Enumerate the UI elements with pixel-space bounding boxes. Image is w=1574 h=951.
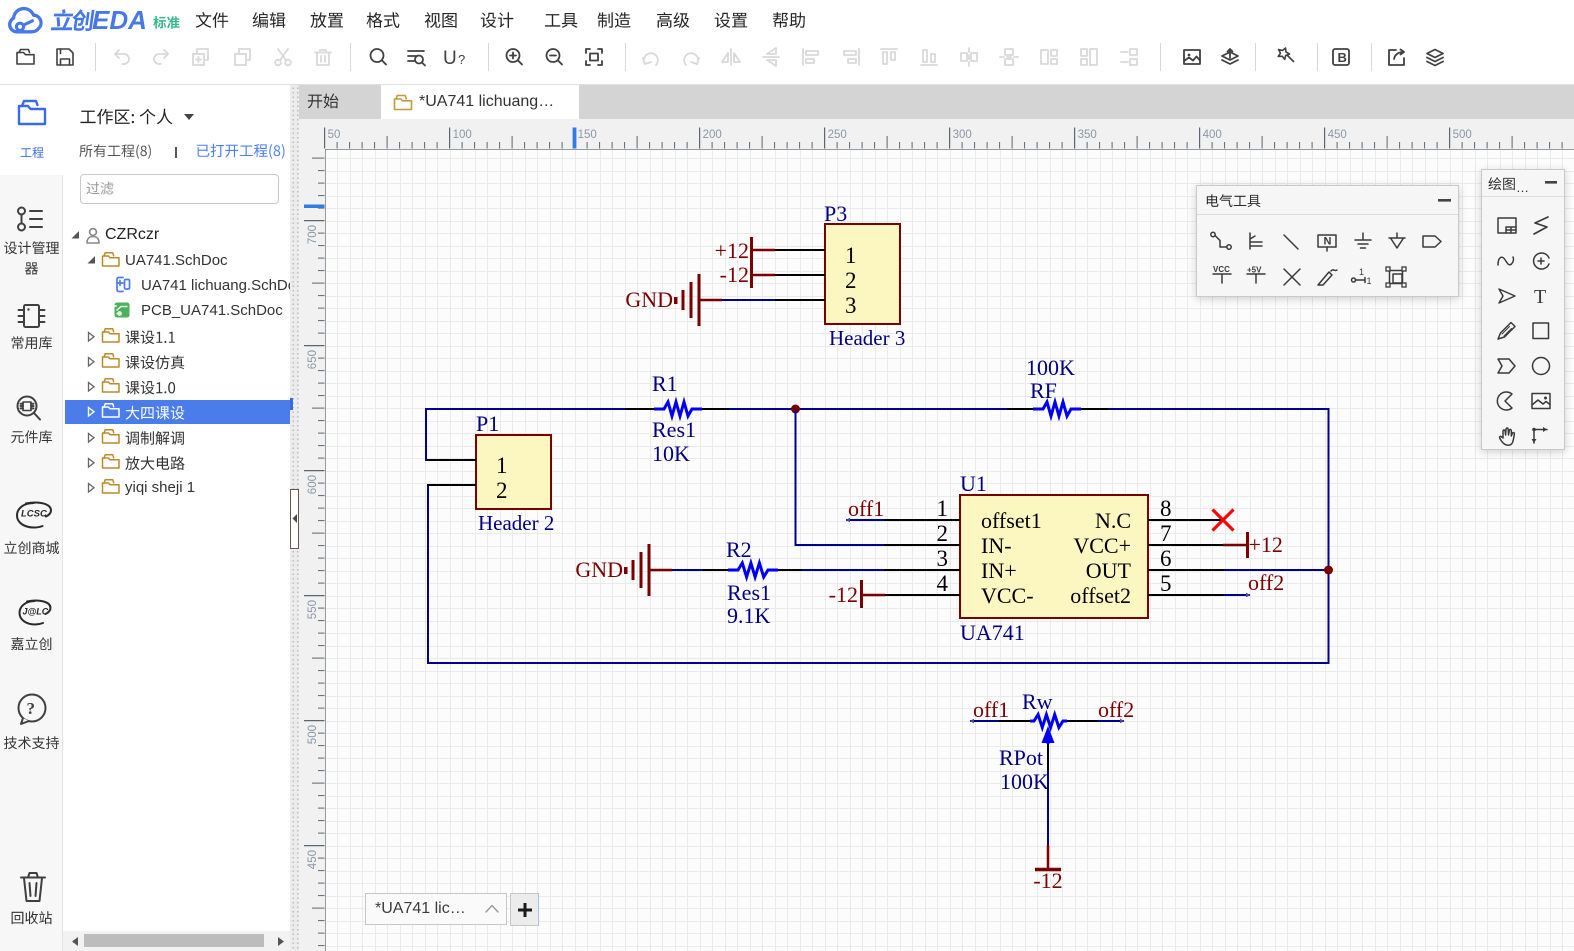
U1 pin 2 line bbox=[884, 544, 960, 546]
wire horizontal to U1 IN- bbox=[795, 544, 886, 546]
resistor R2 body bbox=[728, 563, 778, 577]
U1 pin 7 line bbox=[1148, 544, 1224, 546]
power port -12 at U1 pin4 bbox=[860, 580, 863, 608]
U1 pin 5 line bbox=[1148, 594, 1224, 596]
P1 pin 2 bbox=[427, 484, 476, 486]
ground GND at P3 pin3 bbox=[674, 297, 678, 304]
resistor RF body bbox=[1033, 402, 1081, 416]
wire net off1 at RPot left bbox=[970, 720, 999, 722]
wire net top-left vertical bbox=[425, 409, 427, 461]
ground GND at R2 bbox=[624, 567, 628, 574]
P1 pin 1 bbox=[427, 459, 476, 461]
node B junction dot at OUT bbox=[1324, 566, 1333, 575]
wire RPot wiper down bbox=[1047, 770, 1049, 846]
resistor RF pins bbox=[1007, 408, 1035, 410]
U1 pin 3 line bbox=[884, 569, 960, 571]
U1 pin 8 line bbox=[1148, 519, 1224, 521]
resistor R1 pins bbox=[626, 408, 656, 410]
wire GND1 to P3 pin3 bbox=[722, 299, 776, 301]
wire R2 to U1 IN+ bbox=[801, 569, 885, 571]
potentiometer RPot body bbox=[1030, 715, 1067, 728]
wire net top from P1 to R1 bbox=[425, 408, 627, 410]
resistor R1 body bbox=[654, 402, 702, 416]
P3 pin 2 bbox=[775, 274, 825, 276]
resistor R2 pins bbox=[703, 569, 730, 571]
U1 pin 4 line bbox=[884, 594, 960, 596]
P3 pin 1 bbox=[775, 249, 825, 251]
U1 pin 6 line bbox=[1148, 569, 1224, 571]
svg-text:T: T bbox=[1534, 286, 1546, 308]
wire junction A down to IN- bbox=[795, 409, 797, 546]
wire left vertical from P1 pin2 bbox=[427, 484, 429, 664]
potentiometer RPot wiper arrow bbox=[1042, 726, 1055, 743]
wire bottom return bbox=[427, 662, 1330, 664]
wire net off1 at U1 pin1 bbox=[846, 519, 885, 521]
connector P3 body bbox=[825, 224, 900, 324]
node A junction dot on top wire bbox=[791, 405, 800, 414]
wire net off2 at RPot right bbox=[1097, 720, 1124, 722]
U1 pin 1 line bbox=[884, 519, 960, 521]
power port +12 at P3 pin1 bbox=[750, 237, 753, 263]
power port -12 at P3 pin2 bbox=[750, 262, 753, 288]
potentiometer RPot pins bbox=[998, 720, 1032, 722]
power port -12 at RPot wiper bbox=[1047, 845, 1050, 869]
wire net off2 at U1 pin5 bbox=[1223, 594, 1250, 596]
P3 pin 3 bbox=[775, 299, 825, 301]
power port +12 at U1 pin7 bbox=[1246, 532, 1249, 558]
no-connect X on U1 pin8 bbox=[1213, 510, 1234, 531]
wire net R1 to junction A and RF bbox=[728, 408, 1008, 410]
wire U1 OUT to feedback node bbox=[1223, 569, 1329, 571]
wire GND to R2 bbox=[672, 569, 704, 571]
op-amp U1 body bbox=[960, 495, 1148, 618]
wire net RF to right corner bbox=[1107, 408, 1329, 410]
connector P1 body bbox=[476, 435, 551, 509]
wire right vertical (feedback) bbox=[1328, 408, 1330, 664]
